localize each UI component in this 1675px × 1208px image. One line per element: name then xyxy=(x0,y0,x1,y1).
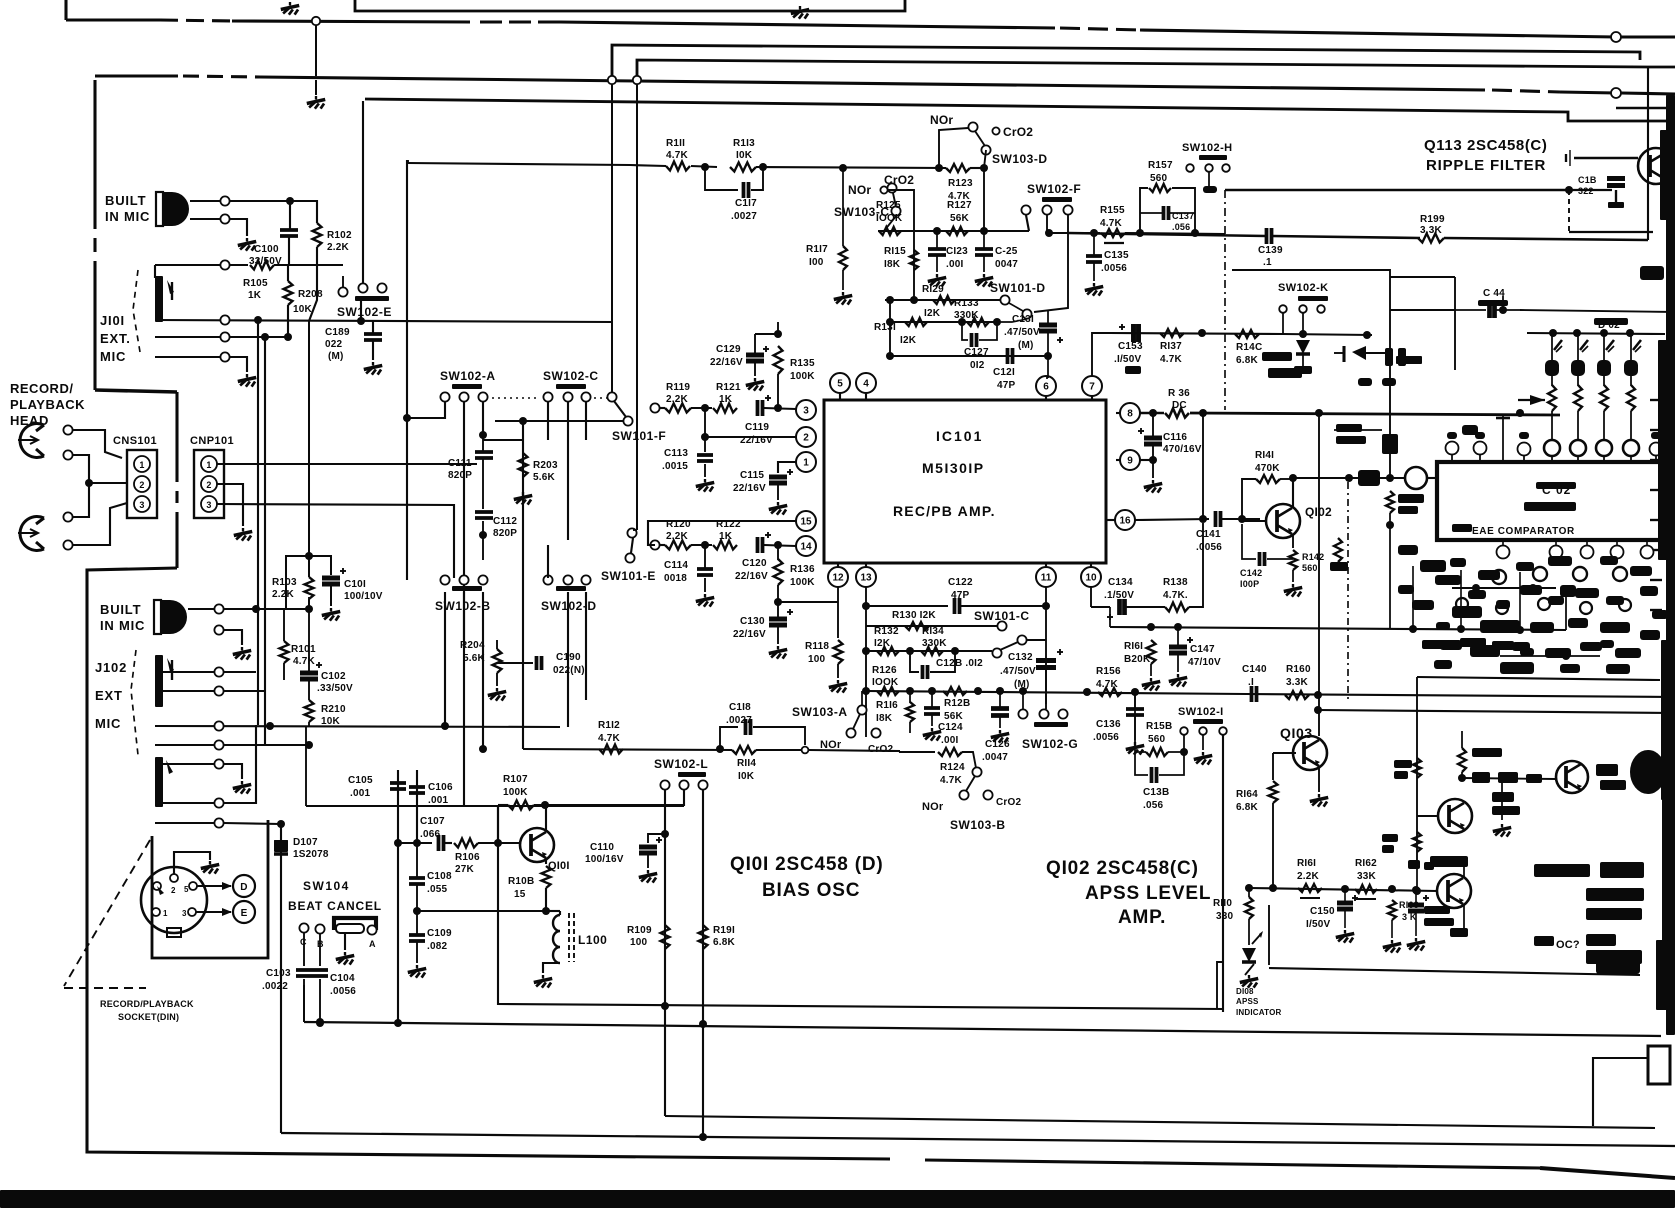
wire C110 bottom xyxy=(647,853,649,868)
capacitor C121 xyxy=(1006,348,1010,364)
wire C125 xyxy=(983,231,985,249)
node mic2 R103 xyxy=(305,605,313,613)
wire y627 row xyxy=(1110,627,1566,630)
wire SW102-E vertical from L5 xyxy=(362,101,364,283)
svg-text:5: 5 xyxy=(837,379,843,390)
ground din xyxy=(209,861,211,864)
node y335 x1367 xyxy=(1363,331,1371,339)
wire x1217 corner xyxy=(1217,962,1223,1009)
wire C126 xyxy=(999,691,1001,707)
wire R116 bottom to contact xyxy=(909,722,911,733)
svg-text:R1I2: R1I2 xyxy=(598,720,620,731)
wire y750 row continue xyxy=(809,750,900,751)
wire swi mid down xyxy=(1202,735,1204,750)
svg-text:4.7K.: 4.7K. xyxy=(1163,590,1188,601)
svg-text:C141: C141 xyxy=(1196,529,1221,540)
node y627 x1178 xyxy=(1174,623,1182,631)
diode D107 xyxy=(274,840,288,852)
ground x1502 xyxy=(1501,824,1503,827)
capacitor C150 xyxy=(1337,901,1353,906)
svg-text:QI02 2SC458(C): QI02 2SC458(C) xyxy=(1046,858,1199,879)
node x407 y418 xyxy=(403,414,411,422)
wire dashed din boundary diagonal xyxy=(64,840,150,986)
wire SW102-A pin2 down xyxy=(463,402,465,640)
node R109 bus1 xyxy=(661,1002,669,1010)
svg-text:R103: R103 xyxy=(272,577,297,588)
svg-text:REC/PB AMP.: REC/PB AMP. xyxy=(893,503,996,519)
blob resistor pair xyxy=(1385,348,1393,366)
wire R210 xyxy=(308,679,310,700)
svg-text:J102: J102 xyxy=(95,660,127,675)
node pin11 y606 xyxy=(1042,602,1050,610)
svg-text:22/16V: 22/16V xyxy=(710,357,743,368)
node L4 x637 xyxy=(633,76,641,84)
svg-text:16: 16 xyxy=(1119,516,1131,527)
wire after R199 xyxy=(1444,238,1648,240)
svg-text:C189: C189 xyxy=(325,327,350,338)
pin jack row4 xyxy=(220,352,229,361)
wire C136 xyxy=(1134,692,1136,709)
chain circle x1631 xyxy=(1623,440,1639,456)
node y691 x932 xyxy=(928,687,936,695)
right edge blob y960 xyxy=(1596,958,1640,974)
wire R110 top xyxy=(1248,888,1250,897)
wire R208 contact stub xyxy=(342,276,344,288)
wire L100 bottom to ground xyxy=(543,963,560,973)
wire C135 xyxy=(1093,233,1095,256)
pin jack row1 xyxy=(220,260,229,269)
wire vertical right x1648 xyxy=(1647,67,1649,240)
svg-text:3: 3 xyxy=(206,500,211,510)
resistor R113 xyxy=(730,163,756,172)
wire pin6 up xyxy=(1046,377,1048,379)
node pin9 xyxy=(1149,456,1157,464)
ground C116 xyxy=(1152,480,1154,483)
pins SW102-K xyxy=(1279,305,1287,313)
wire C103 C104 to bus xyxy=(303,979,305,1022)
IC IC102 comparator box xyxy=(1437,462,1665,540)
node y691 x910 xyxy=(906,687,914,695)
svg-text:NOr: NOr xyxy=(930,113,953,127)
svg-text:SW102-G: SW102-G xyxy=(1022,737,1078,751)
wire J102 r2 xyxy=(155,690,214,692)
pin J102 r6 xyxy=(214,798,223,807)
capacitor C123 xyxy=(928,247,946,251)
wire C137 stubs xyxy=(1140,212,1162,214)
wire after R155 xyxy=(1125,233,1225,234)
capacitor C115 xyxy=(769,475,787,480)
node y333 x1630 xyxy=(1626,329,1634,337)
wire long vertical x265 xyxy=(264,337,266,744)
wire y168 to node xyxy=(970,167,984,169)
ground R142 xyxy=(1292,584,1294,587)
loop R157 C137 xyxy=(1140,188,1148,233)
svg-text:C153: C153 xyxy=(1118,341,1143,352)
svg-text:R208: R208 xyxy=(298,289,323,300)
svg-text:EXT: EXT xyxy=(95,688,123,703)
pin 2 xyxy=(796,427,816,447)
wire sw102f mid down xyxy=(1046,215,1048,233)
svg-text:C124: C124 xyxy=(938,722,963,733)
wire R204 bottom ground xyxy=(496,673,498,686)
svg-text:R130 I2K: R130 I2K xyxy=(892,610,936,621)
svg-text:022: 022 xyxy=(325,339,343,350)
node jack row3 xyxy=(261,333,269,341)
svg-text:R156: R156 xyxy=(1096,666,1121,677)
node c110 xyxy=(661,830,669,838)
svg-text:I2K: I2K xyxy=(924,308,941,319)
svg-text:1: 1 xyxy=(163,909,168,918)
ground R161 xyxy=(1150,678,1152,681)
wire y322 row xyxy=(890,321,962,323)
node swi left xyxy=(1180,748,1188,756)
svg-text:6.8K: 6.8K xyxy=(1236,355,1259,366)
svg-text:2: 2 xyxy=(171,886,176,895)
capacitor C102 xyxy=(300,671,318,676)
wire SW102-L c down xyxy=(702,790,704,1137)
svg-text:.00I: .00I xyxy=(941,735,959,746)
wire din top to ground xyxy=(174,852,210,874)
svg-text:SW102-K: SW102-K xyxy=(1278,282,1328,294)
wire C147 ground xyxy=(1177,627,1179,646)
svg-text:.I: .I xyxy=(1248,677,1254,688)
svg-text:I/50V: I/50V xyxy=(1306,919,1330,930)
resistor R118 xyxy=(834,640,843,664)
svg-text:R 36: R 36 xyxy=(1168,388,1190,399)
top center box xyxy=(355,0,905,11)
resistor R below x1390 xyxy=(1386,491,1394,513)
wire x1455 vertical xyxy=(1454,277,1456,370)
svg-text:322: 322 xyxy=(1578,186,1594,196)
wire SW102-E to node xyxy=(360,301,362,321)
svg-text:3: 3 xyxy=(803,406,809,417)
wire pin10 down xyxy=(1090,587,1092,607)
wire y334 row right xyxy=(1283,334,1372,335)
wire C134-R138 xyxy=(1126,606,1165,608)
wire C114 xyxy=(704,545,706,569)
wire C122 row xyxy=(866,605,948,607)
wire C129 top xyxy=(754,334,756,355)
wire dashdot x1225 xyxy=(1224,190,1226,410)
pin SW102-L b xyxy=(679,780,688,789)
node y233 x1094 xyxy=(1090,229,1098,237)
wire x1566 stub up xyxy=(1565,588,1567,630)
wire C101 ground lead xyxy=(330,585,332,606)
node y322 x962 xyxy=(958,318,966,326)
wire R111 span xyxy=(630,165,666,166)
resistor R129 xyxy=(933,296,955,304)
ground C130 xyxy=(777,646,779,649)
wire R158 to node xyxy=(1168,751,1184,753)
wire pin10 row xyxy=(1091,606,1110,608)
svg-text:C150: C150 xyxy=(1310,906,1335,917)
node y843 x417 xyxy=(413,839,421,847)
svg-text:0018: 0018 xyxy=(664,573,687,584)
svg-text:5.6K: 5.6K xyxy=(463,653,486,664)
pin 14 xyxy=(796,536,816,556)
svg-text:R1I7: R1I7 xyxy=(806,244,828,255)
wire J102 r6 xyxy=(155,802,214,804)
svg-text:R142: R142 xyxy=(1302,552,1324,562)
resistor chain x1462 xyxy=(1458,748,1466,772)
svg-text:100/10V: 100/10V xyxy=(344,591,383,602)
svg-text:R138: R138 xyxy=(1163,577,1188,588)
svg-text:R199: R199 xyxy=(1420,214,1445,225)
wire SW102-C pin2 down xyxy=(567,402,569,540)
capacitor C131 xyxy=(1039,323,1057,328)
label 2.24 blob xyxy=(1396,356,1422,364)
node y310 x1503 xyxy=(1499,306,1507,314)
pin head l2 xyxy=(63,540,72,549)
svg-text:SW102-L: SW102-L xyxy=(654,757,708,771)
svg-text:R1I3: R1I3 xyxy=(733,138,755,149)
wire x1462 xyxy=(1461,731,1463,748)
wire C116 xyxy=(1152,413,1154,438)
svg-text:13: 13 xyxy=(860,573,872,584)
wire swi left down xyxy=(1183,735,1185,752)
svg-text:2.2K: 2.2K xyxy=(327,242,350,253)
svg-text:.0047: .0047 xyxy=(982,752,1008,763)
wire R157 right xyxy=(1172,188,1195,233)
node x1560 y415 xyxy=(1516,409,1524,417)
capacitor C100 xyxy=(280,228,298,232)
transistor Q104b xyxy=(1438,799,1472,833)
chain blob x1578 xyxy=(1571,360,1585,376)
svg-text:022(N): 022(N) xyxy=(553,665,585,676)
node C111 top xyxy=(479,431,487,439)
wire SW102-D pin2 down xyxy=(567,592,569,727)
pin CrO2 B xyxy=(983,790,992,799)
wire J102 r7 to D107 xyxy=(155,822,214,824)
node y167 x705 xyxy=(701,163,709,171)
wire y887 row xyxy=(1249,888,1437,891)
wire y677 row xyxy=(1417,677,1660,680)
wire CNP1 out xyxy=(217,463,477,465)
svg-text:SW102-C: SW102-C xyxy=(543,369,599,383)
terminal E xyxy=(233,901,255,923)
svg-text:E: E xyxy=(241,908,248,919)
capacitor C107 xyxy=(437,835,441,851)
node y911 x417 xyxy=(413,907,421,915)
svg-text:6.8K: 6.8K xyxy=(1236,802,1259,813)
pin 3 xyxy=(796,400,816,420)
ground C129 xyxy=(754,378,756,381)
node y233 x1049 xyxy=(1045,229,1053,237)
wire bus2 left corner xyxy=(303,985,305,1022)
svg-text:A: A xyxy=(369,939,376,949)
svg-text:.001: .001 xyxy=(428,795,449,806)
blob label x1472 xyxy=(1472,748,1502,757)
svg-text:100/16V: 100/16V xyxy=(585,854,624,865)
capacitor C189 xyxy=(364,332,382,336)
svg-text:R12B: R12B xyxy=(944,698,970,709)
wire R133 span xyxy=(958,321,997,323)
wire SW102-A pin3 down xyxy=(482,402,484,435)
extra pin circles above box xyxy=(1446,442,1459,455)
ground D108 xyxy=(1248,975,1250,978)
svg-text:4.7K: 4.7K xyxy=(1096,679,1119,690)
wire R114 to contact xyxy=(756,749,801,751)
switch SW102-E bar xyxy=(355,296,389,301)
wire R101 xyxy=(283,609,285,641)
wire C151 ground xyxy=(1415,890,1417,904)
pin head l1 xyxy=(63,512,72,521)
terminal D xyxy=(233,875,255,897)
capacitor C122 xyxy=(953,598,957,614)
svg-text:330K: 330K xyxy=(922,638,947,649)
node x1319 y413 xyxy=(1315,409,1323,417)
capacitor C126 xyxy=(991,706,1009,711)
resistor R137 xyxy=(1160,329,1184,337)
svg-text:1: 1 xyxy=(206,460,211,470)
svg-text:RIPPLE FILTER: RIPPLE FILTER xyxy=(1426,157,1546,174)
node y691 x866 xyxy=(862,687,870,695)
capacitor C109 xyxy=(409,933,425,937)
wire mic2 top lead xyxy=(188,608,214,610)
svg-text:C102: C102 xyxy=(321,671,346,682)
wire jack J101 dashed outline xyxy=(133,270,140,352)
pin mic2 top xyxy=(214,604,223,613)
wire din5 to D xyxy=(197,885,231,887)
wire y1116 jog to box xyxy=(1593,1058,1648,1126)
chain resistor x1552 xyxy=(1548,385,1556,411)
switch SW103-B xyxy=(972,767,981,776)
resistor R162 xyxy=(1355,885,1377,893)
wire y415 T xyxy=(1502,415,1504,462)
pin 12 bottom xyxy=(828,567,848,587)
resistor R121 xyxy=(713,404,737,413)
wire y163 row xyxy=(408,163,630,165)
ground R163 xyxy=(1391,920,1393,938)
wire y1133 bus3 xyxy=(281,1133,1675,1146)
svg-text:.0022: .0022 xyxy=(262,981,288,992)
din pin 5 right xyxy=(189,882,197,890)
wire swk left down xyxy=(1282,313,1284,334)
ground C113 xyxy=(704,479,706,482)
svg-text:IN MIC: IN MIC xyxy=(100,618,145,633)
node D107 top xyxy=(277,820,285,828)
node B1 xyxy=(441,722,449,730)
capacitor C119s polarized series xyxy=(756,400,760,416)
svg-text:R204: R204 xyxy=(460,640,485,651)
wire q104b base xyxy=(1417,815,1438,817)
svg-text:R160: R160 xyxy=(1286,664,1311,675)
wire SW102-D pin3 down xyxy=(585,592,587,700)
svg-text:3: 3 xyxy=(139,500,144,510)
blob label R46 xyxy=(1382,834,1398,842)
svg-text:10K: 10K xyxy=(293,304,313,315)
blob C153 xyxy=(1125,366,1141,374)
svg-text:IN MIC: IN MIC xyxy=(105,209,150,224)
svg-text:C137: C137 xyxy=(1172,211,1194,221)
wire R103-C102 xyxy=(308,597,310,673)
svg-text:C1I8: C1I8 xyxy=(729,702,751,713)
node y333 x1553 xyxy=(1549,329,1557,337)
svg-text:C115: C115 xyxy=(740,470,764,481)
blob B11 xyxy=(1262,352,1292,361)
wire x890 vertical xyxy=(889,300,891,356)
wire D107 vertical xyxy=(280,824,282,1133)
svg-text:R102: R102 xyxy=(327,230,352,241)
wire J102 long row y726 xyxy=(155,726,560,727)
resistor R208 xyxy=(284,281,293,305)
svg-text:5: 5 xyxy=(184,885,189,894)
capacitor C125 xyxy=(975,247,993,251)
resistor R117 vertical xyxy=(839,246,847,270)
node mic1 xyxy=(286,197,294,205)
wire jack row4 to ground xyxy=(155,357,247,372)
svg-text:C116: C116 xyxy=(1163,432,1187,443)
resistor R140 xyxy=(1235,330,1259,338)
svg-text:C12I: C12I xyxy=(993,367,1015,378)
resistor R203 xyxy=(519,453,528,477)
svg-text:.47/50V: .47/50V xyxy=(1004,327,1040,338)
wire y231 row xyxy=(878,230,1029,232)
svg-text:R132: R132 xyxy=(874,626,899,637)
chain resistor x1631 xyxy=(1627,385,1635,411)
switch SW102-E contacts xyxy=(358,283,367,292)
dense circles row xyxy=(1492,570,1506,584)
switch SW103 contact from R134 xyxy=(992,648,1001,657)
wire after C139 xyxy=(1272,236,1420,238)
svg-text:R123: R123 xyxy=(948,178,973,189)
svg-text:SW102-H: SW102-H xyxy=(1182,142,1232,154)
node y749 x720 xyxy=(716,745,724,753)
wire mic1 top lead xyxy=(190,200,220,202)
pin 4 top xyxy=(856,373,876,393)
ground under top box xyxy=(799,6,801,9)
node y356 x1048 xyxy=(1044,352,1052,360)
svg-text:C142: C142 xyxy=(1240,568,1262,578)
wire dotted row y398 xyxy=(492,397,540,399)
svg-text:D: D xyxy=(240,882,247,893)
node y334 x1303 xyxy=(1299,330,1307,338)
svg-text:CrO2: CrO2 xyxy=(996,797,1021,808)
din pin 1 left-low xyxy=(152,908,160,916)
svg-text:22/16V: 22/16V xyxy=(735,571,768,582)
ground C135 xyxy=(1093,283,1095,286)
wire q102 base up xyxy=(1241,519,1243,521)
svg-text:22/16V: 22/16V xyxy=(740,435,773,446)
node R208 bottom xyxy=(284,333,292,341)
svg-text:MIC: MIC xyxy=(100,349,126,364)
switch SW101-C arm xyxy=(1017,635,1026,644)
wire C141 to Q102 base xyxy=(1222,518,1260,520)
svg-text:RECORD/PLAYBACK: RECORD/PLAYBACK xyxy=(100,999,194,1009)
svg-text:47/10V: 47/10V xyxy=(1188,657,1221,668)
svg-text:0047: 0047 xyxy=(995,259,1018,270)
svg-text:C113: C113 xyxy=(664,448,688,459)
svg-text:C120: C120 xyxy=(742,558,767,569)
node L4 x612 xyxy=(608,76,616,84)
wire y710 row xyxy=(1318,710,1675,713)
pin jack row3 xyxy=(220,332,229,341)
ground SW104 xyxy=(344,952,346,955)
resistor R120 xyxy=(665,541,691,550)
ground R203 xyxy=(522,492,524,495)
node r4 x309 xyxy=(305,741,313,749)
node y695 x1318 xyxy=(1314,691,1322,699)
svg-text:3 K: 3 K xyxy=(1402,912,1417,922)
node x1417 y891 xyxy=(1413,887,1421,895)
pins SW102-H xyxy=(1186,164,1194,172)
node y168 x843 xyxy=(839,164,847,172)
capacitor C120s polarized series xyxy=(756,537,760,553)
svg-text:0I2: 0I2 xyxy=(970,360,985,371)
resistor R161 vertical xyxy=(1147,640,1156,664)
svg-text:1S2078: 1S2078 xyxy=(293,849,329,860)
diode cluster left xyxy=(1352,346,1366,360)
